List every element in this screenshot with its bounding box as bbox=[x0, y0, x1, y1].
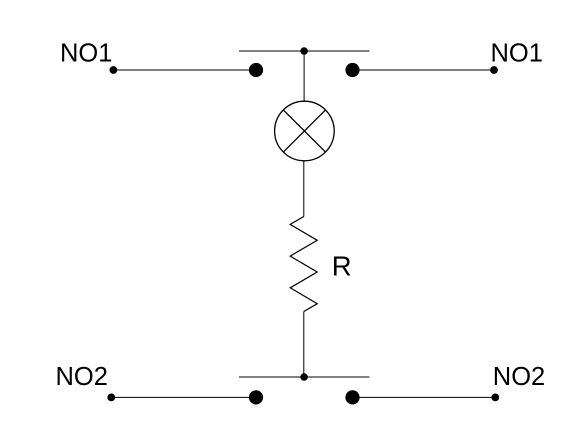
wire: right contact to right NO2 terminal bbox=[353, 396, 496, 398]
node: left NO1 terminal dot bbox=[110, 66, 118, 74]
wire: lamp bottom to resistor top bbox=[303, 161, 305, 217]
wire: left NO2 terminal to left contact bbox=[111, 396, 256, 398]
wire: left NO1 terminal to left contact bbox=[113, 69, 256, 71]
wire: S1 bar to lamp top bbox=[303, 51, 305, 101]
junction dot on S1 bar bbox=[300, 47, 308, 55]
switch S2 contact right (big dot) bbox=[345, 390, 359, 404]
switch S2 actuator bar bbox=[239, 376, 369, 378]
wire: right contact to right NO1 terminal bbox=[353, 69, 495, 71]
switch S1 contact right (big dot) bbox=[345, 63, 359, 77]
switch S1 contact left (big dot) bbox=[249, 63, 263, 77]
node: left NO2 terminal dot bbox=[107, 394, 115, 402]
lamp L1 cross stroke 1 bbox=[283, 110, 325, 152]
switch S2 contact left (big dot) bbox=[249, 390, 263, 404]
svg-text:NO2: NO2 bbox=[56, 363, 108, 391]
lamp L1 cross stroke 2 bbox=[283, 110, 325, 152]
switch S1 actuator bar bbox=[239, 50, 369, 52]
svg-text:NO1: NO1 bbox=[491, 39, 543, 67]
lamp L1 circle bbox=[275, 101, 335, 161]
wire: resistor bottom to S2 bar bbox=[303, 312, 305, 378]
svg-text:R: R bbox=[332, 251, 352, 282]
resistor R zigzag bbox=[290, 217, 317, 312]
svg-text:NO1: NO1 bbox=[60, 39, 112, 67]
junction dot on S2 bar bbox=[300, 373, 308, 381]
node: right NO1 terminal dot bbox=[490, 66, 498, 74]
svg-text:NO2: NO2 bbox=[493, 363, 545, 391]
node: right NO2 terminal dot bbox=[491, 394, 499, 402]
